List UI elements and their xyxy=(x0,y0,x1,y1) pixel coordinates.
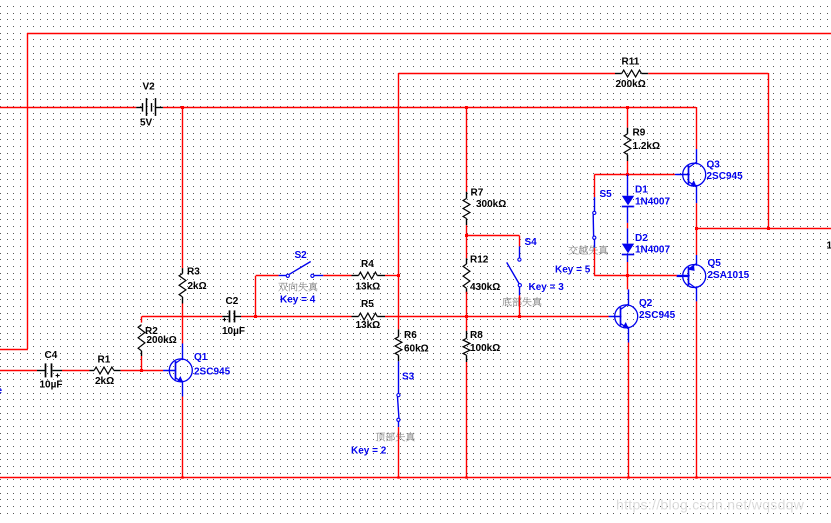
wire Q2 base lead xyxy=(609,316,622,318)
svg-text:V2: V2 xyxy=(143,82,156,93)
label R5 xyxy=(361,299,374,310)
label 10uF of C4 xyxy=(40,380,63,391)
svg-text:300kΩ: 300kΩ xyxy=(476,199,506,210)
label 2SA1015 of Q5 xyxy=(708,270,750,281)
wire Q5 collector to ground rail xyxy=(696,301,698,477)
svg-text:1N4007: 1N4007 xyxy=(635,197,670,208)
switch S3 Key=2 xyxy=(397,361,400,427)
wire Q3 emitter to output node xyxy=(696,203,698,229)
node ground rail S3 xyxy=(397,476,399,478)
svg-text:https://blog.csdn.net/wqsdqw: https://blog.csdn.net/wqsdqw xyxy=(616,497,805,513)
wire R7 top xyxy=(466,107,468,192)
node ground rail Q1 xyxy=(181,476,183,478)
label S3 xyxy=(402,372,415,383)
svg-text:S4: S4 xyxy=(525,237,538,248)
transistor Q2 2SC945 xyxy=(609,304,638,328)
label Key = 3 xyxy=(529,282,565,293)
resistor R9 1.2k xyxy=(624,128,631,161)
resistor R5 13k xyxy=(352,313,386,320)
wire R8 to ground rail xyxy=(466,362,468,477)
svg-text:C4: C4 xyxy=(45,350,58,361)
svg-text:R7: R7 xyxy=(471,188,484,199)
resistor R11 200k xyxy=(615,70,648,77)
wire R11 horizontal xyxy=(398,73,615,75)
resistor R8 100k xyxy=(463,331,470,362)
label S5 xyxy=(600,189,613,200)
svg-text:1.2kΩ: 1.2kΩ xyxy=(633,141,660,152)
wire R2 top corner xyxy=(141,316,143,322)
wire Q5 emitter red xyxy=(696,229,698,255)
label 13kOhm of R4 xyxy=(356,282,381,293)
svg-text:R4: R4 xyxy=(361,259,374,270)
resistor R1 2k xyxy=(90,367,121,374)
wire top rail xyxy=(27,33,831,35)
label R12 xyxy=(470,255,489,266)
label R11 xyxy=(622,57,640,68)
wire Q1 collector lead xyxy=(182,344,184,361)
battery V2 5V xyxy=(136,98,163,116)
node supply tee at x=628 xyxy=(626,106,629,109)
wire Q3 collector corner xyxy=(696,107,698,149)
svg-text:2SC945: 2SC945 xyxy=(707,171,744,182)
svg-text:Q5: Q5 xyxy=(708,258,722,269)
svg-text:200kΩ: 200kΩ xyxy=(616,79,646,90)
label D2 xyxy=(635,233,648,244)
wire Q1 emitter to ground rail xyxy=(182,397,184,478)
label C2 xyxy=(226,296,239,307)
transistor Q1 2SC945 xyxy=(163,358,192,382)
svg-text:13kΩ: 13kΩ xyxy=(356,320,381,331)
wire R9 to D1 node xyxy=(627,161,629,175)
label Key = 4 xyxy=(280,294,316,305)
label Q2 xyxy=(639,298,653,309)
label dingbu-shizhen xyxy=(376,432,415,441)
node ground rail Q5 xyxy=(695,476,697,478)
label 2SC945 of Q3 xyxy=(707,171,744,182)
wire D node to Q3 base xyxy=(594,174,675,176)
diode D2 1N4007 xyxy=(622,228,634,262)
wire S5 bottom vertical xyxy=(594,248,596,276)
label Q1 xyxy=(194,352,208,363)
wire Q2 emitter to ground rail xyxy=(628,343,630,478)
wire Q3 emitter lead xyxy=(696,185,698,203)
label Q3 xyxy=(707,160,721,171)
label Key = 5 xyxy=(555,265,591,276)
wire battery rail right xyxy=(163,107,696,109)
node ground rail R8 xyxy=(465,476,467,478)
node ground rail Q2 xyxy=(627,476,629,478)
wire Q5 emitter lead xyxy=(696,255,698,266)
wire Q2 node to Q5 base xyxy=(628,275,677,277)
transistor Q5 2SA1015 xyxy=(677,264,706,288)
svg-text:2SC945: 2SC945 xyxy=(194,366,231,377)
wire Q2 collector red xyxy=(627,276,629,290)
label 430kOhm of R12 xyxy=(470,282,500,293)
resistor R6 60k xyxy=(395,329,402,361)
label 5V xyxy=(140,118,153,129)
wire Q1 emitter lead xyxy=(182,381,184,397)
label R2 xyxy=(145,326,158,337)
resistor R7 300k xyxy=(463,192,470,225)
wire R2 bottom xyxy=(141,356,143,370)
wire C2 to R5 xyxy=(241,316,352,318)
wire R12 to base node xyxy=(466,292,468,331)
capacitor C2 10uF electrolytic xyxy=(222,310,241,322)
wire R5 to Q2 base xyxy=(385,316,609,318)
svg-text:60kΩ: 60kΩ xyxy=(404,344,429,355)
node D1 top junction xyxy=(626,173,629,176)
wire S5 top corner xyxy=(594,175,596,198)
wire D1 anode lead xyxy=(627,175,629,196)
label cut-off 1 at right edge xyxy=(827,240,831,251)
label R9 xyxy=(633,128,646,139)
wire R9 top xyxy=(627,107,629,128)
node S4 bottom junction xyxy=(518,315,521,318)
resistor R2 200k xyxy=(138,325,145,356)
svg-text:Q3: Q3 xyxy=(707,160,721,171)
svg-text:D2: D2 xyxy=(635,233,648,244)
svg-text:2SC945: 2SC945 xyxy=(639,310,676,321)
node R12-R8 junction xyxy=(465,315,468,318)
label jiaoyue-shizhen xyxy=(569,245,608,254)
wire S4 to base node xyxy=(519,295,521,316)
wire R1 to Q1 base xyxy=(121,370,164,372)
wire Q3 collector lead xyxy=(696,149,698,164)
switch S5 Key=5 xyxy=(593,197,596,248)
wire R4 to node B xyxy=(385,275,398,277)
label R6 xyxy=(404,330,417,341)
node R2 bottom junction xyxy=(140,369,143,372)
label V2 xyxy=(143,82,156,93)
svg-text:R9: R9 xyxy=(633,128,646,139)
svg-text:13kΩ: 13kΩ xyxy=(356,282,381,293)
wire to S2 xyxy=(256,275,279,277)
label cut-off e at left edge xyxy=(0,386,3,397)
label Key = 2 xyxy=(351,445,387,456)
svg-text:1: 1 xyxy=(827,240,831,251)
wire bottom ground rail xyxy=(0,477,831,479)
label 2kOhm of R1 xyxy=(95,376,114,387)
label R4 xyxy=(361,259,374,270)
node S2 branch tee xyxy=(254,315,257,318)
svg-text:2kΩ: 2kΩ xyxy=(95,376,114,387)
label 200kOhm of R2 xyxy=(147,335,177,346)
wire collector node to C2 xyxy=(142,316,223,318)
svg-text:C2: C2 xyxy=(226,296,239,307)
resistor R4 13k xyxy=(352,272,386,279)
wire Q2 emitter lead xyxy=(628,327,630,343)
svg-text:Key = 3: Key = 3 xyxy=(529,282,565,293)
svg-text:430kΩ: 430kΩ xyxy=(470,282,500,293)
wire R3 top xyxy=(182,107,184,268)
label 60kOhm of R6 xyxy=(404,344,429,355)
svg-text:10µF: 10µF xyxy=(222,326,245,337)
svg-text:2kΩ: 2kΩ xyxy=(188,281,207,292)
node R7-R12-S4 junction xyxy=(465,234,468,237)
svg-text:100kΩ: 100kΩ xyxy=(470,343,500,354)
svg-text:R5: R5 xyxy=(361,299,374,310)
switch S4 Key=3 xyxy=(507,246,522,295)
label 300kOhm of R7 xyxy=(476,199,506,210)
label 2SC945 of Q2 xyxy=(639,310,676,321)
label C4 xyxy=(45,350,58,361)
wire R11 vertical left xyxy=(398,73,400,329)
wire S2 to R4 xyxy=(323,275,351,277)
wire between D1 and D2 xyxy=(627,223,629,229)
wire Q2 collector lead xyxy=(628,289,630,306)
wire input left xyxy=(0,370,37,372)
svg-text:Key = 5: Key = 5 xyxy=(555,265,591,276)
svg-text:Key = 4: Key = 4 xyxy=(280,294,316,305)
label Q5 xyxy=(708,258,722,269)
wire left stub to edge xyxy=(0,349,28,351)
svg-text:R3: R3 xyxy=(187,267,200,278)
wire S2 branch vertical xyxy=(255,276,257,317)
svg-text:S3: S3 xyxy=(402,372,415,383)
svg-text:Q2: Q2 xyxy=(639,298,653,309)
svg-text:2SA1015: 2SA1015 xyxy=(708,270,750,281)
resistor R12 430k xyxy=(463,258,470,293)
label dibu-shizhen xyxy=(502,297,541,306)
label R3 xyxy=(187,267,200,278)
svg-text:Q1: Q1 xyxy=(194,352,208,363)
svg-text:Key = 2: Key = 2 xyxy=(351,445,387,456)
wire D2 to Q2 node xyxy=(627,262,629,276)
label 1.2kOhm of R9 xyxy=(633,141,660,152)
capacitor C4 10uF electrolytic xyxy=(37,363,62,377)
label 2kOhm of R3 xyxy=(188,281,207,292)
svg-text:200kΩ: 200kΩ xyxy=(147,335,177,346)
label 200kOhm of R11 xyxy=(616,79,646,90)
svg-text:R8: R8 xyxy=(470,330,483,341)
label 1N4007 of D2 xyxy=(635,245,670,256)
label shuangxiang-shizhen xyxy=(278,282,317,291)
switch S2 Key=4 xyxy=(279,262,324,278)
svg-text:S5: S5 xyxy=(600,189,613,200)
wire R11 right vertical xyxy=(768,73,770,229)
wire C4 to R1 xyxy=(62,370,90,372)
watermark xyxy=(616,497,805,513)
svg-text:S2: S2 xyxy=(295,250,308,261)
wire S5 bottom horizontal xyxy=(594,275,628,277)
wire Q5 collector lead xyxy=(696,286,698,301)
svg-text:10µF: 10µF xyxy=(40,380,63,391)
label R1 xyxy=(98,355,111,366)
label S2 xyxy=(295,250,308,261)
wire S4 branch down xyxy=(519,236,521,247)
transistor Q3 2SC945 xyxy=(677,162,706,186)
label 13kOhm of R5 xyxy=(356,320,381,331)
label 100kOhm of R8 xyxy=(470,343,500,354)
label R7 xyxy=(471,188,484,199)
svg-text:5V: 5V xyxy=(140,118,153,129)
svg-text:R6: R6 xyxy=(404,330,417,341)
wire R3 bottom to Q1 collector xyxy=(182,304,184,344)
label S4 xyxy=(525,237,538,248)
node D2 bottom junction xyxy=(626,274,629,277)
node output junction xyxy=(695,227,698,230)
label 2SC945 of Q1 xyxy=(194,366,231,377)
wire R11 to right corner xyxy=(648,73,768,75)
svg-text:R12: R12 xyxy=(470,255,489,266)
wire left vertical xyxy=(27,33,29,349)
svg-text:D1: D1 xyxy=(635,185,648,196)
wire Q5 base lead xyxy=(677,275,690,277)
label 1N4007 of D1 xyxy=(635,197,670,208)
wire Q1 base lead xyxy=(163,370,176,372)
wire output line xyxy=(696,228,831,230)
resistor R3 2k xyxy=(179,268,186,303)
svg-text:1N4007: 1N4007 xyxy=(635,245,670,256)
node R4-R11 junction xyxy=(397,274,400,277)
node supply tee at x=466 xyxy=(465,106,468,109)
diode D1 1N4007 xyxy=(622,196,634,223)
wire R7 to R12 xyxy=(466,225,468,258)
node supply tee at x=182.8 xyxy=(181,106,184,109)
svg-text:R11: R11 xyxy=(622,57,640,68)
label D1 xyxy=(635,185,648,196)
wire S4 branch horizontal xyxy=(466,235,519,237)
wire Q3 base lead xyxy=(675,174,690,176)
label 10uF of C2 xyxy=(222,326,245,337)
svg-text:R1: R1 xyxy=(98,355,111,366)
wire S3 to ground rail xyxy=(398,427,400,477)
node R11 output junction xyxy=(767,227,770,230)
wire battery rail left xyxy=(0,107,136,109)
label R8 xyxy=(470,330,483,341)
